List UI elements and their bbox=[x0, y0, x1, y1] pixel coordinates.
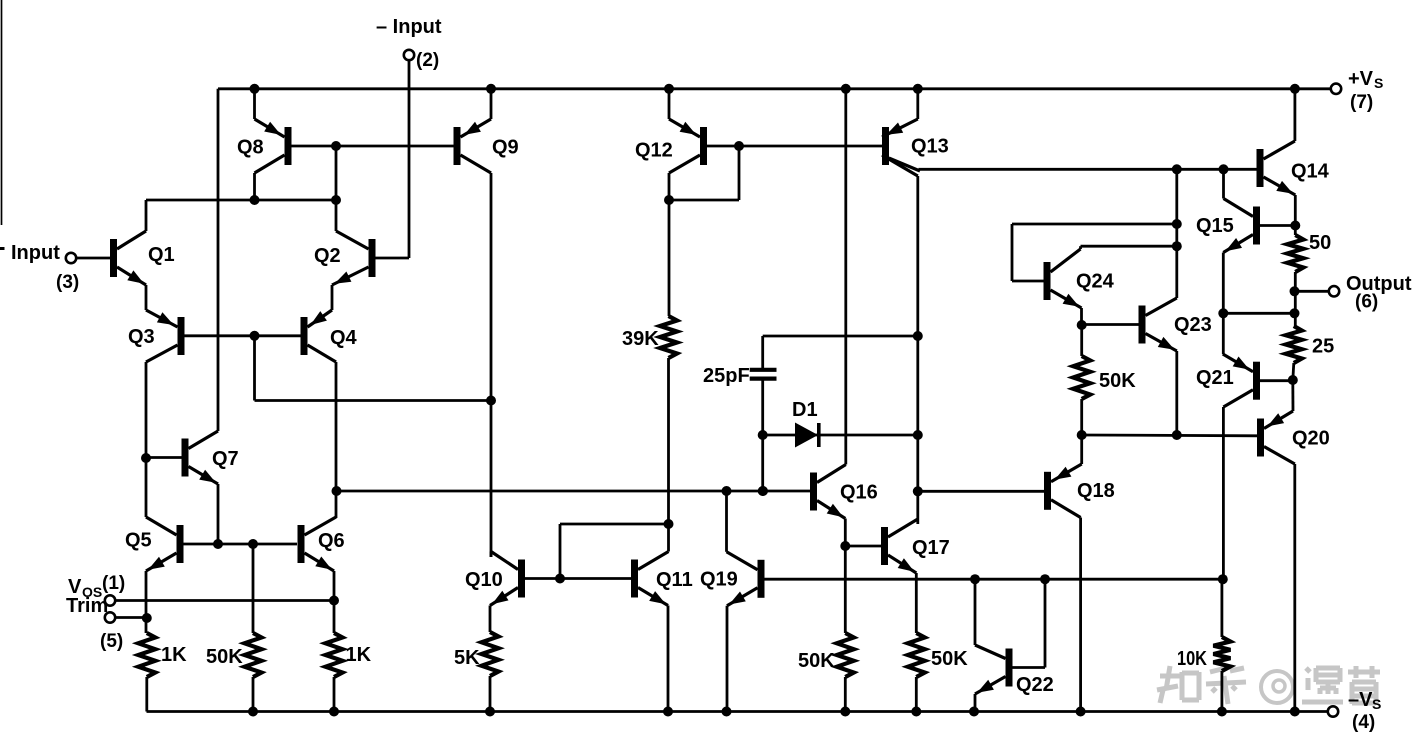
svg-text:Q20: Q20 bbox=[1292, 428, 1330, 450]
svg-text:S: S bbox=[1372, 696, 1381, 712]
svg-text:Q2: Q2 bbox=[314, 245, 341, 267]
svg-text:Q11: Q11 bbox=[656, 569, 693, 591]
svg-text:Q17: Q17 bbox=[912, 537, 950, 559]
svg-text:5K: 5K bbox=[454, 647, 480, 669]
svg-text:Q14: Q14 bbox=[1291, 161, 1330, 183]
svg-text:39K: 39K bbox=[622, 328, 659, 350]
svg-text:+V: +V bbox=[1348, 68, 1374, 90]
svg-text:(7): (7) bbox=[1350, 92, 1373, 113]
svg-text:Input: Input bbox=[11, 242, 60, 264]
svg-text:Q8: Q8 bbox=[237, 137, 264, 159]
svg-text:–V: –V bbox=[1348, 689, 1373, 711]
svg-text:Q12: Q12 bbox=[635, 140, 673, 162]
svg-text:10K: 10K bbox=[1177, 648, 1207, 670]
svg-text:Q19: Q19 bbox=[700, 569, 738, 591]
svg-text:Q3: Q3 bbox=[128, 326, 155, 348]
svg-text:Q4: Q4 bbox=[330, 327, 358, 349]
svg-text:50K: 50K bbox=[931, 648, 968, 670]
svg-text:1K: 1K bbox=[346, 644, 372, 666]
svg-text:– Input: – Input bbox=[376, 16, 442, 38]
svg-text:Q1: Q1 bbox=[148, 244, 175, 266]
svg-text:50K: 50K bbox=[798, 650, 835, 672]
svg-text:Q13: Q13 bbox=[911, 136, 949, 158]
svg-text:(5): (5) bbox=[100, 631, 123, 652]
svg-text:(2): (2) bbox=[416, 50, 439, 71]
svg-text:50K: 50K bbox=[1099, 370, 1136, 392]
svg-text:Q10: Q10 bbox=[465, 569, 503, 591]
svg-text:Trim: Trim bbox=[66, 595, 108, 617]
svg-text:Q18: Q18 bbox=[1077, 480, 1115, 502]
svg-text:50: 50 bbox=[1309, 232, 1331, 254]
svg-text:Q23: Q23 bbox=[1174, 314, 1212, 336]
svg-text:Q9: Q9 bbox=[492, 137, 519, 159]
svg-text:Q15: Q15 bbox=[1196, 215, 1234, 237]
svg-text:Q24: Q24 bbox=[1076, 271, 1115, 293]
svg-text:Q5: Q5 bbox=[125, 530, 152, 552]
svg-text:25: 25 bbox=[1312, 336, 1334, 358]
svg-text:D1: D1 bbox=[792, 399, 818, 421]
svg-text:Q21: Q21 bbox=[1196, 367, 1234, 389]
svg-text:Q22: Q22 bbox=[1016, 674, 1054, 696]
svg-text:Q16: Q16 bbox=[840, 482, 878, 504]
svg-text:Q6: Q6 bbox=[318, 530, 345, 552]
svg-text:(1): (1) bbox=[102, 573, 125, 594]
svg-text:(3): (3) bbox=[56, 272, 79, 293]
svg-text:50K: 50K bbox=[206, 646, 243, 668]
svg-text:1K: 1K bbox=[161, 644, 187, 666]
svg-text:Q7: Q7 bbox=[212, 448, 239, 470]
svg-text:S: S bbox=[1374, 75, 1383, 91]
svg-text:(4): (4) bbox=[1352, 712, 1375, 733]
svg-text:25pF: 25pF bbox=[703, 365, 750, 387]
svg-text:(6): (6) bbox=[1355, 292, 1378, 313]
